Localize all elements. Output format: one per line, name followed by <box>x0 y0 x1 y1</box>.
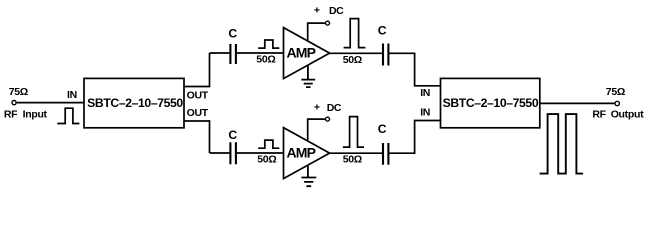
svg-text:AMP: AMP <box>286 145 315 161</box>
svg-text:50Ω: 50Ω <box>343 54 362 66</box>
svg-text:75Ω: 75Ω <box>9 86 28 98</box>
svg-text:C: C <box>378 24 387 38</box>
svg-text:Output: Output <box>611 109 644 121</box>
svg-text:+: + <box>314 102 320 114</box>
svg-text:OUT: OUT <box>187 89 209 101</box>
svg-text:AMP: AMP <box>286 45 315 61</box>
svg-text:RF: RF <box>592 109 606 121</box>
svg-text:Input: Input <box>23 109 48 121</box>
svg-text:50Ω: 50Ω <box>256 54 275 66</box>
svg-text:RF: RF <box>4 109 18 121</box>
svg-text:IN: IN <box>420 87 430 99</box>
svg-text:50Ω: 50Ω <box>343 154 362 166</box>
svg-text:IN: IN <box>67 89 77 101</box>
svg-text:SBTC–2–10–7550: SBTC–2–10–7550 <box>87 96 183 110</box>
svg-text:C: C <box>378 122 387 136</box>
svg-text:SBTC–2–10–7550: SBTC–2–10–7550 <box>443 96 539 110</box>
svg-text:C: C <box>228 128 237 142</box>
svg-text:IN: IN <box>420 107 430 119</box>
svg-text:DC: DC <box>329 5 344 17</box>
svg-text:+: + <box>314 5 320 17</box>
svg-text:C: C <box>228 27 237 41</box>
svg-text:OUT: OUT <box>187 107 209 119</box>
svg-text:50Ω: 50Ω <box>257 154 276 166</box>
svg-text:75Ω: 75Ω <box>606 86 625 98</box>
svg-text:DC: DC <box>327 102 342 114</box>
